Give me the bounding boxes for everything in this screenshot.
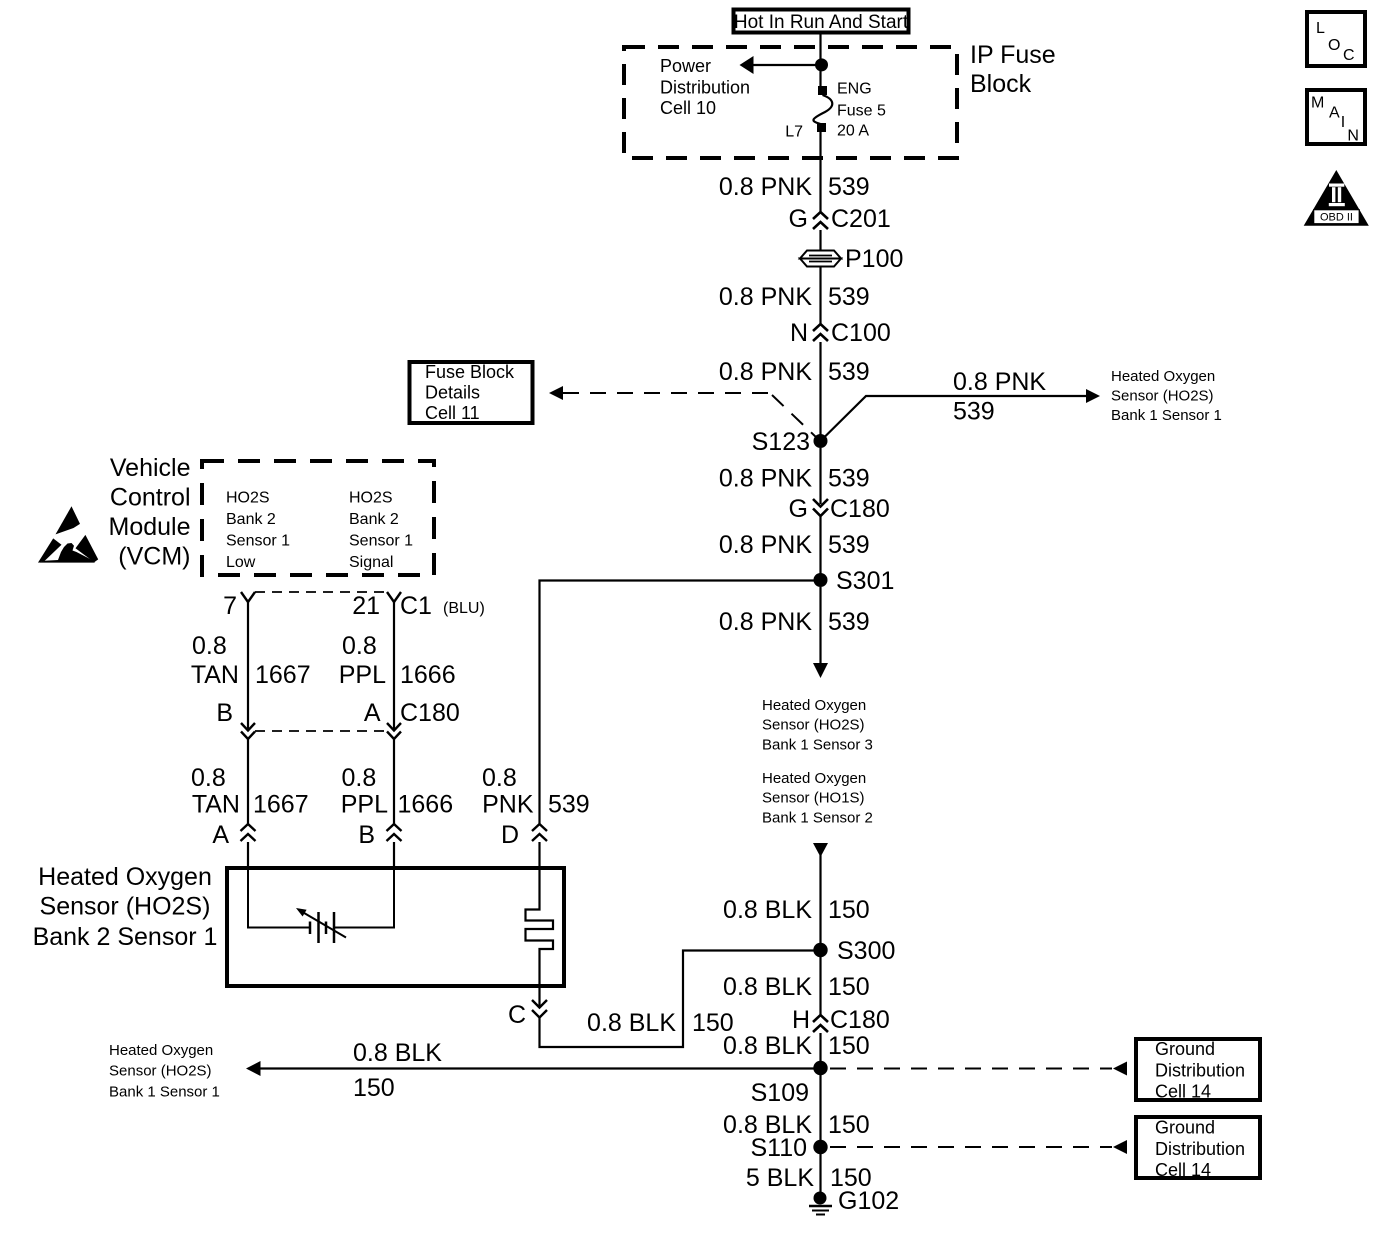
svg-text:Signal: Signal: [349, 554, 393, 571]
svg-text:G: G: [789, 495, 808, 523]
svg-text:Distribution: Distribution: [1155, 1061, 1245, 1081]
wire S300 to C180 H: [819, 957, 821, 1015]
VCM dashed box: [202, 461, 434, 575]
svg-text:S123: S123: [752, 428, 810, 456]
svg-text:1667: 1667: [253, 791, 309, 819]
C1 pin labels: [223, 592, 485, 620]
svg-text:PPL: PPL: [339, 661, 386, 689]
svg-text:S109: S109: [751, 1079, 809, 1107]
svg-text:21: 21: [352, 592, 380, 620]
svg-text:TAN: TAN: [192, 791, 240, 819]
svg-text:A: A: [1329, 105, 1340, 122]
wire label 0.8 BLK 150: [723, 896, 870, 924]
svg-text:Heated Oxygen: Heated Oxygen: [762, 697, 866, 714]
svg-text:C180: C180: [830, 495, 890, 523]
svg-text:Bank 2: Bank 2: [349, 511, 399, 528]
svg-text:Sensor 1: Sensor 1: [349, 533, 413, 550]
svg-text:(BLU): (BLU): [443, 600, 485, 617]
svg-text:0.8 PNK: 0.8 PNK: [719, 358, 812, 386]
svg-text:A: A: [212, 821, 229, 849]
svg-text:Low: Low: [226, 554, 256, 571]
wire 1666 PPL upper segment: [393, 602, 395, 730]
svg-text:150: 150: [692, 1009, 734, 1037]
branch wire labels 0.8 PNK 539: [953, 368, 1046, 426]
svg-text:L7: L7: [785, 124, 803, 141]
svg-text:0.8: 0.8: [482, 764, 517, 792]
svg-text:20 A: 20 A: [837, 122, 869, 139]
sensor connector pin B chevrons: [387, 824, 402, 841]
reference text HO1S bank 1 sensor 2: [762, 770, 873, 827]
wire S110 to G102: [819, 1147, 821, 1196]
svg-text:1667: 1667: [255, 661, 311, 689]
sensing element (variable cell): [296, 908, 346, 943]
svg-text:0.8: 0.8: [191, 764, 226, 792]
svg-text:HO2S: HO2S: [226, 490, 270, 507]
ground G102: [809, 1187, 899, 1215]
connector C180 pin A (arrow + fork): [387, 723, 401, 739]
ESD sensitive device symbol: [38, 506, 98, 562]
heater element: [526, 868, 554, 1007]
ground distribution cell 14 box 1: [1136, 1039, 1260, 1102]
dashed leader to fuse block details: [549, 386, 818, 439]
branch wire S123 to HO2S bank 1 sensor 1: [821, 389, 1101, 441]
svg-text:Module: Module: [109, 513, 191, 541]
svg-text:Heated Oxygen: Heated Oxygen: [762, 770, 866, 787]
svg-text:1666: 1666: [400, 661, 456, 689]
splice S300: [813, 937, 895, 965]
ground wire labels 0.8 BLK 150: [353, 1039, 442, 1102]
wire from sensor 2 reference down to S300: [813, 843, 828, 950]
reference text HO2S bank 1 sensor 1 (left): [109, 1042, 220, 1101]
connector C1 fork pin 7: [241, 592, 255, 602]
svg-text:Bank 2: Bank 2: [226, 511, 276, 528]
sensor connector pin D chevrons: [532, 824, 547, 841]
svg-text:7: 7: [223, 592, 237, 620]
HO2S bank 2 sensor 1 label: [33, 863, 218, 951]
svg-text:Fuse 5: Fuse 5: [837, 102, 886, 119]
svg-text:150: 150: [828, 973, 870, 1001]
svg-text:0.8 PNK: 0.8 PNK: [953, 368, 1046, 396]
svg-text:0.8 PNK: 0.8 PNK: [719, 531, 812, 559]
wire label 0.8 PNK 539: [719, 358, 870, 386]
legend OBD II symbol: [1304, 170, 1369, 226]
dashed leader S109 to ground distribution: [830, 1062, 1127, 1076]
svg-text:0.8: 0.8: [342, 764, 377, 792]
VCM label: [109, 454, 191, 571]
fuse ENG Fuse 5 20A: [813, 86, 832, 132]
svg-text:Ground: Ground: [1155, 1118, 1215, 1138]
svg-text:S110: S110: [750, 1134, 807, 1162]
wire label 5 BLK 150: [746, 1164, 872, 1192]
svg-text:539: 539: [548, 791, 590, 819]
power feed box "Hot In Run And Start": [734, 10, 909, 34]
wire C180 to S301: [819, 516, 821, 580]
svg-text:Details: Details: [425, 383, 480, 403]
svg-text:539: 539: [828, 283, 870, 311]
svg-text:C100: C100: [831, 319, 891, 347]
wire stubs into sensor box: [247, 842, 249, 868]
svg-text:PNK: PNK: [482, 791, 534, 819]
lower wire labels: [191, 764, 590, 849]
svg-text:Vehicle: Vehicle: [110, 454, 191, 482]
svg-text:N: N: [790, 319, 808, 347]
svg-text:Bank 1 Sensor 3: Bank 1 Sensor 3: [762, 737, 873, 754]
svg-text:L: L: [1316, 20, 1325, 37]
wire C segment from sensor to S300: [540, 951, 816, 1048]
svg-text:0.8 BLK: 0.8 BLK: [723, 896, 812, 924]
svg-text:C: C: [1343, 47, 1355, 64]
svg-text:Hot In Run And Start: Hot In Run And Start: [734, 12, 909, 33]
arrow to power distribution: [740, 56, 821, 74]
wire label 0.8 PNK 539: [719, 465, 870, 493]
wire label 0.8 BLK 150: [723, 1111, 870, 1139]
svg-text:P100: P100: [845, 245, 903, 273]
connector C1 dashed line: [255, 591, 387, 593]
svg-text:150: 150: [828, 896, 870, 924]
connector C180 pin B (arrow + fork): [241, 723, 255, 739]
svg-text:539: 539: [953, 398, 995, 426]
svg-text:Cell 10: Cell 10: [660, 98, 716, 118]
VCM pin function labels: [226, 490, 413, 572]
svg-text:Cell 11: Cell 11: [425, 403, 480, 423]
svg-text:M: M: [1311, 95, 1324, 112]
svg-text:C: C: [508, 1001, 526, 1029]
svg-text:539: 539: [828, 173, 870, 201]
svg-text:N: N: [1347, 128, 1359, 145]
svg-text:539: 539: [828, 608, 870, 636]
connector C180 pin G: [789, 495, 890, 523]
IP fuse block dashed box: [624, 47, 957, 158]
svg-text:150: 150: [828, 1032, 870, 1060]
legend LOC symbol: [1307, 12, 1365, 66]
svg-text:A: A: [364, 699, 381, 727]
wire label 0.8 PNK 539: [719, 531, 870, 559]
svg-text:0.8 PNK: 0.8 PNK: [719, 465, 812, 493]
splice S123: [752, 428, 828, 456]
svg-text:539: 539: [828, 465, 870, 493]
wire label 0.8 PNK 539: [719, 173, 870, 201]
IP fuse block label: [970, 41, 1056, 98]
arrow wire to HO2S bank1 sensor3: [813, 587, 828, 678]
wire C100 to S123: [819, 342, 821, 441]
wire S123 to C180: [819, 448, 821, 504]
svg-text:G102: G102: [838, 1187, 899, 1215]
svg-text:539: 539: [828, 358, 870, 386]
svg-text:150: 150: [828, 1111, 870, 1139]
svg-text:IP Fuse: IP Fuse: [970, 41, 1056, 69]
splice S109: [751, 1061, 828, 1107]
svg-text:Sensor (HO1S): Sensor (HO1S): [762, 790, 865, 807]
wire 1667 TAN lower segment: [247, 739, 249, 824]
svg-text:Bank 2 Sensor 1: Bank 2 Sensor 1: [33, 923, 218, 951]
svg-text:150: 150: [353, 1074, 395, 1102]
wire label 0.8 BLK 150: [723, 1032, 870, 1060]
fuse label ENG Fuse 5 20 A: [837, 81, 886, 140]
svg-text:B: B: [358, 821, 375, 849]
fuse block details reference box: [410, 362, 533, 423]
splice S110: [750, 1134, 827, 1162]
grommet P100: [800, 245, 903, 273]
svg-text:0.8 BLK: 0.8 BLK: [723, 973, 812, 1001]
svg-text:Block: Block: [970, 70, 1032, 98]
svg-text:0.8 BLK: 0.8 BLK: [353, 1039, 442, 1067]
svg-text:C201: C201: [831, 205, 891, 233]
svg-text:OBD II: OBD II: [1320, 212, 1353, 224]
connector chevrons pin C: [532, 1000, 547, 1018]
svg-text:Distribution: Distribution: [660, 78, 750, 98]
svg-text:D: D: [501, 821, 519, 849]
svg-text:Distribution: Distribution: [1155, 1139, 1245, 1159]
branch wire S301 to sensor pin D: [540, 581, 815, 825]
svg-text:O: O: [1328, 37, 1340, 54]
sensor connector pin A chevrons: [241, 824, 256, 841]
svg-text:B: B: [216, 699, 233, 727]
svg-text:5 BLK: 5 BLK: [746, 1164, 814, 1192]
svg-text:Sensor (HO2S): Sensor (HO2S): [109, 1063, 212, 1080]
svg-text:S301: S301: [836, 567, 894, 595]
svg-text:539: 539: [828, 531, 870, 559]
connector C180 dashed line: [255, 730, 387, 732]
dashed leader S110 to ground distribution: [830, 1140, 1127, 1154]
upper wire labels: [191, 632, 460, 727]
svg-text:(VCM): (VCM): [118, 543, 190, 571]
wire 1666 PPL lower segment: [393, 739, 395, 824]
wire fuse to C201: [819, 131, 821, 212]
svg-text:0.8 PNK: 0.8 PNK: [719, 608, 812, 636]
connector C1 fork pin 21: [387, 592, 401, 602]
svg-text:Bank 1 Sensor 2: Bank 1 Sensor 2: [762, 810, 873, 827]
svg-text:C1: C1: [400, 592, 432, 620]
wire P100 to C100: [819, 267, 821, 324]
svg-text:0.8: 0.8: [342, 632, 377, 660]
svg-text:Ground: Ground: [1155, 1039, 1215, 1059]
svg-text:Sensor 1: Sensor 1: [226, 533, 290, 550]
svg-text:I: I: [1341, 114, 1345, 131]
svg-text:G: G: [789, 205, 808, 233]
svg-text:0.8: 0.8: [192, 632, 227, 660]
wire label 0.8 BLK 150 (below S300): [723, 973, 870, 1001]
sensing element wiring: [248, 868, 309, 928]
svg-text:Cell 14: Cell 14: [1155, 1082, 1211, 1102]
svg-text:Sensor (HO2S): Sensor (HO2S): [1111, 388, 1214, 405]
wire label 0.8 PNK 539: [719, 608, 870, 636]
legend MAIN symbol: [1307, 90, 1365, 145]
svg-text:Bank 1 Sensor 1: Bank 1 Sensor 1: [109, 1084, 220, 1101]
connector C100 pin N: [790, 319, 891, 347]
svg-text:0.8 PNK: 0.8 PNK: [719, 283, 812, 311]
svg-text:HO2S: HO2S: [349, 490, 393, 507]
svg-text:Bank 1 Sensor 1: Bank 1 Sensor 1: [1111, 407, 1222, 424]
svg-text:ENG: ENG: [837, 81, 872, 98]
wire label 0.8 PNK 539: [719, 283, 870, 311]
wire S109 to S110: [819, 1068, 821, 1147]
svg-text:0.8 PNK: 0.8 PNK: [719, 173, 812, 201]
svg-text:Cell 14: Cell 14: [1155, 1160, 1211, 1180]
svg-text:C180: C180: [400, 699, 460, 727]
svg-text:Sensor (HO2S): Sensor (HO2S): [762, 717, 865, 734]
wire from power feed into IP fuse block: [819, 35, 821, 88]
svg-text:Power: Power: [660, 56, 711, 76]
svg-text:C180: C180: [830, 1006, 890, 1034]
power distribution reference text: [660, 56, 750, 118]
svg-text:1666: 1666: [398, 791, 454, 819]
svg-text:0.8 BLK: 0.8 BLK: [723, 1032, 812, 1060]
svg-text:Heated Oxygen: Heated Oxygen: [1111, 368, 1215, 385]
wire C180 H to S109: [819, 1033, 821, 1068]
connector C180 pin H: [792, 1006, 890, 1034]
ground wire S109 to HO2S bank1 sensor1 (left): [246, 1061, 814, 1076]
svg-text:0.8 BLK: 0.8 BLK: [587, 1009, 676, 1037]
reference text HO2S bank 1 sensor 3: [762, 697, 873, 754]
ground distribution cell 14 box 2: [1136, 1117, 1260, 1180]
svg-text:Heated Oxygen: Heated Oxygen: [38, 863, 212, 891]
svg-text:PPL: PPL: [341, 791, 388, 819]
svg-text:H: H: [792, 1006, 810, 1034]
svg-text:TAN: TAN: [191, 661, 239, 689]
svg-text:Control: Control: [110, 484, 191, 512]
svg-text:Heated Oxygen: Heated Oxygen: [109, 1042, 213, 1059]
splice S301: [814, 567, 895, 595]
connector C201 pin G: [789, 205, 891, 233]
wire C201 to P100: [819, 230, 821, 251]
junction node in fuse block: [815, 58, 828, 71]
svg-text:Sensor (HO2S): Sensor (HO2S): [40, 893, 211, 921]
wire C labels 0.8 BLK 150: [587, 1009, 734, 1037]
svg-text:Fuse Block: Fuse Block: [425, 362, 515, 382]
svg-text:S300: S300: [837, 937, 895, 965]
reference text HO2S bank 1 sensor 1 (right): [1111, 368, 1222, 424]
wire 1667 TAN upper segment: [247, 602, 249, 730]
HO2S bank 2 sensor 1 box: [227, 868, 564, 986]
